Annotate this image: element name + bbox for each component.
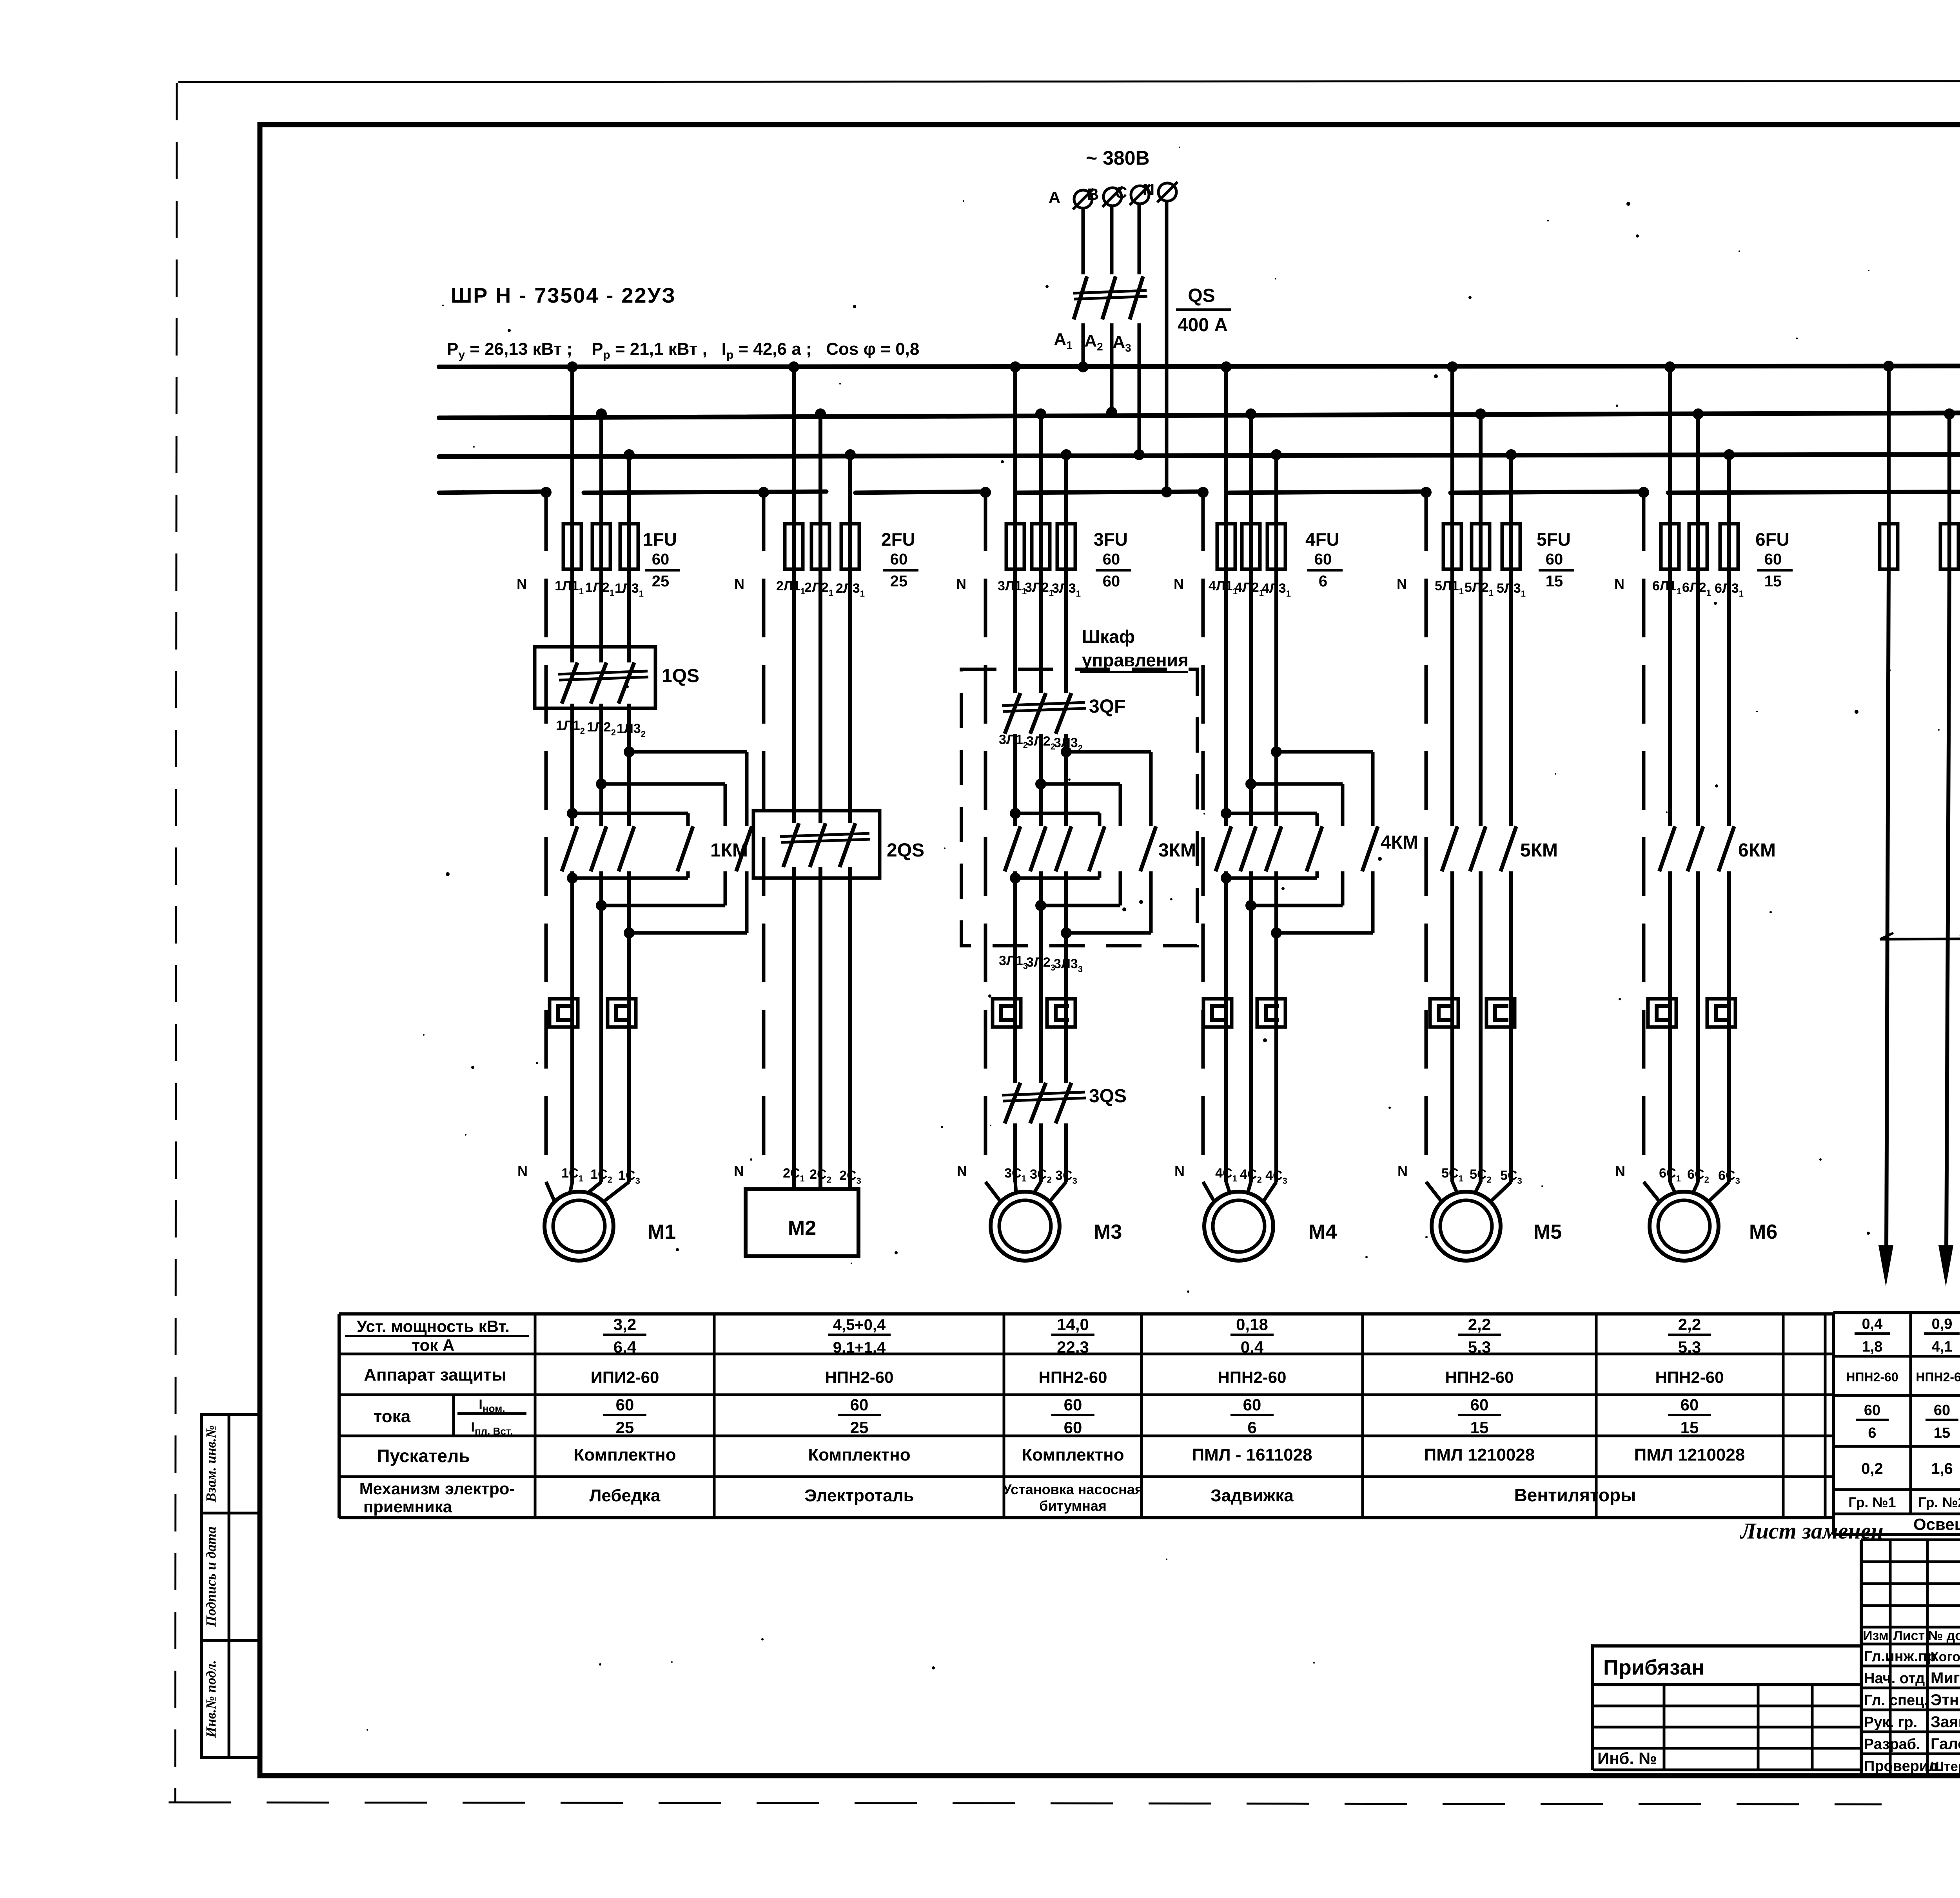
node branch4 phase3 on bus L3 bbox=[1271, 449, 1282, 460]
svg-text:N: N bbox=[1397, 576, 1407, 592]
node branch6 phase3 on bus L3 bbox=[1724, 449, 1735, 460]
fuse 1FU pole2 bbox=[592, 524, 610, 569]
svg-text:N: N bbox=[1174, 1163, 1185, 1179]
node branch3 phase2 on bus L2 bbox=[1035, 408, 1046, 419]
svg-text:2FU: 2FU bbox=[881, 529, 915, 550]
svg-text:5,3: 5,3 bbox=[1678, 1338, 1701, 1356]
svg-text:15: 15 bbox=[1934, 1425, 1950, 1441]
bus line L2 bbox=[439, 412, 1960, 418]
svg-text:60: 60 bbox=[652, 551, 670, 568]
svg-text:25: 25 bbox=[850, 1418, 869, 1437]
svg-text:~ 380В: ~ 380В bbox=[1086, 147, 1150, 169]
wire branch1 phase3 drop bbox=[627, 455, 631, 569]
wire branch3 phases to 3QS bbox=[1013, 871, 1017, 1083]
wire phases into motor M5 bbox=[1452, 1182, 1457, 1193]
wire branch4 phase2 drop bbox=[1249, 414, 1253, 569]
wire branch2 phase1 drop bbox=[792, 367, 796, 569]
switch 3QS contacts bbox=[1005, 1083, 1020, 1123]
switch 1QS box bbox=[535, 647, 655, 708]
svg-text:4,1: 4,1 bbox=[1932, 1339, 1953, 1355]
wire branch6 phases to thermal relays bbox=[1668, 871, 1672, 1182]
wire branch4 phase3 drop bbox=[1274, 455, 1278, 569]
fuse 5FU pole3 bbox=[1502, 524, 1520, 569]
svg-text:Ру = 26,13 кВт ; Рр = 21,1: Ру = 26,13 кВт ; Рр = 21,1 кВт , Iр = 42… bbox=[447, 339, 919, 361]
electric hoist M2 box bbox=[746, 1189, 858, 1256]
fuse 3FU pole3 bbox=[1057, 524, 1075, 569]
node lighting feeder 1 on bus L1 bbox=[1883, 361, 1894, 372]
node branch6 phase2 on bus L2 bbox=[1693, 408, 1704, 419]
svg-text:Комплектно: Комплектно bbox=[573, 1445, 676, 1464]
bus line L1 bbox=[439, 366, 1960, 367]
title block privyazan subtable bbox=[1593, 1684, 1861, 1686]
drawing frame border bbox=[260, 125, 1960, 1776]
node branch1 phase2 on bus L2 bbox=[596, 408, 607, 419]
parameters table grid bbox=[339, 1312, 1833, 1316]
svg-text:Разраб.: Разраб. bbox=[1864, 1736, 1920, 1753]
fuse 6FU pole1 bbox=[1661, 524, 1679, 569]
wire branch5 phases fuse to contactor bbox=[1450, 569, 1454, 826]
wire branch6 neutral dashed bbox=[1642, 492, 1646, 1170]
wire branch1 phase1 drop bbox=[570, 367, 574, 569]
svg-text:N: N bbox=[1397, 1163, 1408, 1179]
svg-text:Комплектно: Комплектно bbox=[808, 1445, 910, 1464]
svg-text:60: 60 bbox=[1103, 573, 1120, 590]
svg-text:3,2: 3,2 bbox=[613, 1315, 636, 1334]
contactor 1КМ contacts bbox=[562, 826, 577, 871]
wire lighting feeder 2 drop bbox=[1947, 414, 1951, 569]
svg-text:Гр. №1: Гр. №1 bbox=[1848, 1494, 1896, 1510]
wire branch4 phases fuse to contactor bbox=[1224, 569, 1228, 826]
svg-text:6,4: 6,4 bbox=[613, 1338, 637, 1356]
svg-text:С: С bbox=[1115, 183, 1127, 201]
node branch1 phase1 on bus L1 bbox=[567, 361, 578, 372]
motor M1 bbox=[544, 1192, 613, 1261]
svg-text:Коголовский: Коголовский bbox=[1931, 1649, 1960, 1664]
fuse 2FU pole3 bbox=[841, 524, 859, 569]
svg-text:Аппарат защиты: Аппарат защиты bbox=[364, 1365, 506, 1384]
node branch4 phase2 on bus L2 bbox=[1245, 408, 1256, 419]
svg-text:60: 60 bbox=[1243, 1395, 1261, 1414]
svg-text:1FU: 1FU bbox=[643, 529, 677, 550]
svg-text:60: 60 bbox=[1864, 1402, 1880, 1419]
node branch5 phase1 on bus L1 bbox=[1447, 361, 1458, 372]
svg-text:0,18: 0,18 bbox=[1236, 1315, 1268, 1334]
node branch1 neutral on bus N bbox=[541, 487, 552, 498]
thermal relay 3KK element at 2707 bbox=[1047, 999, 1075, 1027]
node branch2 phase3 on bus L3 bbox=[845, 449, 856, 460]
svg-text:Лебедка: Лебедка bbox=[590, 1486, 661, 1505]
wire branch6 phase2 drop bbox=[1696, 414, 1700, 569]
svg-text:5,3: 5,3 bbox=[1468, 1338, 1491, 1356]
wire N into motor M3 bbox=[985, 1182, 1001, 1202]
node branch2 neutral on bus N bbox=[758, 487, 769, 498]
wire branch1 phases to thermal relays bbox=[570, 871, 574, 1182]
svg-text:Гр. №2: Гр. №2 bbox=[1918, 1494, 1960, 1510]
svg-text:управления: управления bbox=[1082, 650, 1189, 670]
wire reversing bridge upper 3 bbox=[1221, 808, 1232, 819]
node branch5 phase3 on bus L3 bbox=[1506, 449, 1517, 460]
svg-text:Заяц: Заяц bbox=[1931, 1713, 1960, 1731]
svg-text:ПМЛ 1210028: ПМЛ 1210028 bbox=[1424, 1445, 1535, 1464]
node supply N on bus N bbox=[1161, 486, 1172, 497]
wire reversing bridge upper 2 bbox=[1035, 778, 1046, 789]
svg-text:ПМЛ 1210028: ПМЛ 1210028 bbox=[1634, 1445, 1745, 1464]
svg-text:4FU: 4FU bbox=[1305, 529, 1339, 550]
fuse 1FU pole1 bbox=[563, 524, 581, 569]
svg-text:ИПИ2-60: ИПИ2-60 bbox=[591, 1368, 659, 1386]
svg-text:Взам. инв.№: Взам. инв.№ bbox=[203, 1425, 219, 1503]
svg-text:25: 25 bbox=[652, 573, 670, 590]
svg-text:1QS: 1QS bbox=[662, 666, 699, 686]
wire N into motor M1 bbox=[546, 1182, 555, 1202]
title block privyazan box bbox=[1593, 1646, 1861, 1685]
svg-text:60: 60 bbox=[850, 1395, 869, 1414]
wire phase B to bus bbox=[1110, 323, 1114, 412]
svg-text:Инб. №: Инб. № bbox=[1597, 1749, 1657, 1767]
svg-text:60: 60 bbox=[1064, 1418, 1082, 1437]
switch 2QS box bbox=[753, 811, 880, 878]
svg-text:тока: тока bbox=[374, 1407, 411, 1426]
wire branch4 neutral dashed bbox=[1201, 492, 1205, 1170]
table header row3 label bbox=[452, 1395, 455, 1436]
svg-text:9,1+1,4: 9,1+1,4 bbox=[833, 1339, 886, 1356]
wire lighting feeder 1 drop bbox=[1887, 367, 1891, 569]
node branch4 neutral on bus N bbox=[1198, 487, 1209, 498]
svg-text:6КМ: 6КМ bbox=[1738, 840, 1776, 861]
svg-text:Уст. мощность кВт.: Уст. мощность кВт. bbox=[357, 1317, 510, 1335]
svg-text:N: N bbox=[1143, 180, 1154, 199]
node supply B on bus L2 bbox=[1106, 407, 1117, 418]
fuse 2FU pole2 bbox=[811, 524, 829, 569]
thermal relay 3KK element at 2568 bbox=[993, 999, 1021, 1027]
svg-text:Механизм электро-: Механизм электро- bbox=[359, 1479, 515, 1498]
svg-text:4,5+0,4: 4,5+0,4 bbox=[833, 1316, 886, 1334]
node lighting feeder 2 on bus L2 bbox=[1944, 408, 1955, 419]
wire branch5 phase3 drop bbox=[1509, 455, 1513, 569]
svg-text:N: N bbox=[1614, 576, 1624, 592]
svg-text:Изм: Изм bbox=[1863, 1628, 1889, 1643]
svg-text:22,3: 22,3 bbox=[1057, 1338, 1089, 1356]
svg-text:6FU: 6FU bbox=[1755, 529, 1789, 550]
svg-text:25: 25 bbox=[616, 1418, 634, 1437]
wire phases into motor M3 bbox=[1015, 1182, 1016, 1193]
svg-text:Штеренлихт: Штеренлихт bbox=[1931, 1759, 1960, 1774]
wire reversing bridge lower 3 bbox=[1061, 927, 1072, 938]
wire reversing bridge lower 1 bbox=[1221, 873, 1232, 884]
svg-text:М1: М1 bbox=[648, 1221, 676, 1243]
svg-text:А: А bbox=[1049, 188, 1060, 207]
fuse lighting feeder 2 bbox=[1940, 524, 1958, 569]
svg-text:1,6: 1,6 bbox=[1931, 1460, 1953, 1477]
wire branch2 phases to M2 bbox=[792, 867, 796, 1189]
svg-text:Рук. гр.: Рук. гр. bbox=[1864, 1714, 1917, 1731]
title block header row izm list bbox=[1861, 1626, 1960, 1629]
svg-text:6: 6 bbox=[1868, 1425, 1876, 1441]
svg-text:Подпись и дата: Подпись и дата bbox=[203, 1526, 219, 1627]
wire N into motor M5 bbox=[1426, 1182, 1442, 1202]
fuse 4FU pole1 bbox=[1217, 524, 1235, 569]
switch 2QS contacts bbox=[783, 823, 799, 867]
wire reversing bridge lower 2 bbox=[596, 900, 607, 911]
svg-text:НПН2-60: НПН2-60 bbox=[1916, 1370, 1960, 1384]
svg-text:0,9: 0,9 bbox=[1932, 1316, 1953, 1332]
svg-text:М6: М6 bbox=[1749, 1221, 1777, 1243]
svg-text:Задвижка: Задвижка bbox=[1210, 1486, 1294, 1505]
wire reversing bridge lower 3 bbox=[624, 927, 635, 938]
wire reversing bridge upper 2 bbox=[1245, 778, 1256, 789]
wire branch2 phases fuse to 2QS bbox=[792, 569, 796, 823]
wire branch5 neutral dashed bbox=[1425, 492, 1428, 1170]
wire branch3 phase2 drop bbox=[1039, 414, 1043, 569]
wire reversing bridge upper 3 bbox=[567, 808, 578, 819]
svg-text:60: 60 bbox=[1064, 1395, 1082, 1414]
svg-text:ШР Н - 73504 - 22УЗ: ШР Н - 73504 - 22УЗ bbox=[451, 284, 676, 307]
svg-text:N: N bbox=[517, 1163, 528, 1179]
fuse 1FU pole3 bbox=[620, 524, 638, 569]
thermal relay 6KK element at 4391 bbox=[1707, 999, 1735, 1027]
wire branch2 phase3 drop bbox=[848, 455, 852, 569]
svg-text:60: 60 bbox=[890, 551, 908, 568]
fuse 6FU pole3 bbox=[1720, 524, 1738, 569]
svg-text:3QF: 3QF bbox=[1089, 696, 1125, 717]
svg-text:60: 60 bbox=[1681, 1395, 1699, 1414]
svg-text:Электроталь: Электроталь bbox=[804, 1486, 914, 1505]
svg-text:1,8: 1,8 bbox=[1862, 1339, 1883, 1355]
svg-text:В: В bbox=[1087, 185, 1099, 203]
wire branch1 neutral dashed bbox=[544, 492, 548, 1172]
svg-text:0,4: 0,4 bbox=[1241, 1338, 1264, 1356]
node branch3 phase3 on bus L3 bbox=[1061, 449, 1072, 460]
svg-text:4КМ: 4КМ bbox=[1381, 832, 1418, 853]
svg-text:ток А: ток А bbox=[412, 1336, 455, 1354]
wire branch6 phase3 drop bbox=[1727, 455, 1731, 569]
wire branch5 phase1 drop bbox=[1450, 367, 1454, 569]
wire branch5 phases to thermal relays bbox=[1450, 871, 1454, 1182]
svg-text:приемника: приемника bbox=[363, 1497, 452, 1516]
title block revision grid bbox=[1861, 1539, 1960, 1541]
svg-text:Освещение: Освещение bbox=[1913, 1515, 1960, 1533]
node branch3 neutral on bus N bbox=[980, 487, 991, 498]
wire branch4 phase1 drop bbox=[1224, 367, 1228, 569]
svg-text:Шкаф: Шкаф bbox=[1082, 626, 1135, 647]
switch 1QS contacts bbox=[562, 662, 577, 704]
wire lighting group 2 feeder bbox=[1946, 569, 1949, 1254]
svg-text:НПН2-60: НПН2-60 bbox=[825, 1368, 894, 1386]
svg-text:N: N bbox=[1174, 576, 1184, 592]
svg-text:2,2: 2,2 bbox=[1678, 1315, 1701, 1334]
svg-text:М3: М3 bbox=[1094, 1221, 1122, 1243]
svg-text:М4: М4 bbox=[1308, 1221, 1337, 1243]
wire branch4 phases to thermal relays bbox=[1224, 871, 1228, 1182]
wire reversing bridge lower 1 bbox=[567, 873, 578, 884]
wire branch3 phase1 drop bbox=[1013, 367, 1017, 569]
wire phases into motor M4 bbox=[1226, 1182, 1230, 1193]
svg-text:15: 15 bbox=[1764, 573, 1782, 590]
disconnector QS main bbox=[1074, 276, 1087, 319]
fuse 2FU pole1 bbox=[785, 524, 803, 569]
wire reversing bridge lower 2 bbox=[1035, 900, 1046, 911]
svg-text:1КМ: 1КМ bbox=[710, 840, 748, 861]
svg-text:Вентиляторы: Вентиляторы bbox=[1514, 1485, 1636, 1505]
page edge left broken line bbox=[175, 83, 177, 1803]
svg-text:N: N bbox=[734, 1163, 744, 1179]
contactor 6КМ contacts bbox=[1659, 826, 1675, 871]
svg-text:НПН2-60: НПН2-60 bbox=[1445, 1368, 1514, 1386]
svg-text:2,2: 2,2 bbox=[1468, 1315, 1491, 1334]
svg-text:5FU: 5FU bbox=[1537, 529, 1571, 550]
wire branch2 phase2 drop bbox=[818, 414, 822, 569]
breaker 3QF contacts bbox=[1005, 693, 1020, 734]
svg-text:НПН2-60: НПН2-60 bbox=[1846, 1370, 1898, 1384]
wire branch6 phase1 drop bbox=[1668, 367, 1672, 569]
wire branch1 phases 1QS to contactor bbox=[570, 704, 574, 826]
control cabinet dashed box bbox=[961, 669, 1197, 946]
svg-text:Пускатель: Пускатель bbox=[377, 1446, 470, 1466]
svg-text:60: 60 bbox=[1314, 551, 1332, 568]
thermal relay 1KK element at 1586 bbox=[608, 999, 636, 1027]
node branch6 phase1 on bus L1 bbox=[1664, 361, 1675, 372]
svg-text:N: N bbox=[956, 576, 966, 592]
svg-text:3FU: 3FU bbox=[1094, 529, 1128, 550]
thermal relay 5KK element at 3828 bbox=[1486, 999, 1515, 1027]
fuse 4FU pole2 bbox=[1242, 524, 1260, 569]
contactor 4КМ contacts bbox=[1216, 826, 1231, 871]
wire branch1 phase2 drop bbox=[599, 414, 603, 569]
wire phases into motor M1 bbox=[570, 1182, 572, 1193]
bus line L3 bbox=[439, 454, 1960, 457]
wire N into motor M4 bbox=[1203, 1182, 1214, 1202]
svg-text:N: N bbox=[957, 1163, 967, 1179]
fuse 4FU pole3 bbox=[1267, 524, 1285, 569]
node branch2 phase2 on bus L2 bbox=[815, 408, 826, 419]
fuse 5FU pole2 bbox=[1472, 524, 1490, 569]
wire branch2 neutral dashed bbox=[762, 492, 766, 1172]
thermal relay 4KK element at 3106 bbox=[1203, 999, 1232, 1027]
svg-text:N: N bbox=[734, 576, 744, 592]
svg-text:ПМЛ - 1611028: ПМЛ - 1611028 bbox=[1192, 1445, 1312, 1464]
arrow lighting group 1 bbox=[1878, 1245, 1893, 1287]
svg-text:N: N bbox=[517, 576, 527, 592]
lighting table grid bbox=[1833, 1311, 1960, 1314]
fuse 6FU pole2 bbox=[1689, 524, 1707, 569]
svg-text:Мигаль: Мигаль bbox=[1931, 1669, 1960, 1687]
page edge bottom broken line bbox=[169, 1802, 1882, 1804]
svg-text:60: 60 bbox=[1546, 551, 1563, 568]
svg-text:2QS: 2QS bbox=[887, 840, 924, 861]
page edge top line bbox=[178, 81, 1960, 82]
svg-text:Установка насосная: Установка насосная bbox=[1003, 1481, 1143, 1497]
node branch5 neutral on bus N bbox=[1421, 487, 1432, 498]
wire phase B drop bbox=[1110, 206, 1114, 274]
wire phases into motor M6 bbox=[1670, 1182, 1675, 1193]
svg-text:Этнис: Этнис bbox=[1931, 1691, 1960, 1709]
wire lighting group 1 feeder bbox=[1886, 569, 1889, 1254]
wire phase C drop bbox=[1138, 204, 1141, 274]
thermal relay 5KK element at 3684 bbox=[1430, 999, 1458, 1027]
svg-text:№ документа: № документа bbox=[1928, 1628, 1960, 1643]
wire reversing bridge upper 2 bbox=[596, 778, 607, 789]
wire branch3 phases to motor bbox=[1013, 1123, 1017, 1182]
wire reversing bridge lower 3 bbox=[1271, 927, 1282, 938]
wire branch1 phases fuse to 1QS bbox=[570, 569, 574, 662]
bus line N segmented bbox=[439, 492, 546, 493]
svg-text:15: 15 bbox=[1681, 1418, 1699, 1437]
svg-text:QS: QS bbox=[1188, 285, 1215, 306]
motor M6 bbox=[1650, 1192, 1719, 1261]
motor M4 bbox=[1204, 1192, 1273, 1261]
svg-text:0,2: 0,2 bbox=[1861, 1460, 1883, 1477]
svg-text:0,4: 0,4 bbox=[1862, 1316, 1883, 1332]
svg-text:Лист: Лист bbox=[1893, 1628, 1925, 1643]
svg-text:6: 6 bbox=[1319, 573, 1327, 590]
svg-text:15: 15 bbox=[1470, 1418, 1489, 1437]
svg-text:НПН2-60: НПН2-60 bbox=[1039, 1368, 1107, 1386]
svg-text:Нач. отд.: Нач. отд. bbox=[1864, 1670, 1929, 1687]
fuse lighting feeder 1 bbox=[1880, 524, 1898, 569]
node supply C on bus L3 bbox=[1134, 449, 1145, 460]
svg-text:14,0: 14,0 bbox=[1057, 1315, 1089, 1334]
wire phase A drop bbox=[1082, 208, 1085, 274]
svg-text:60: 60 bbox=[1103, 551, 1120, 568]
node supply A on bus L1 bbox=[1078, 361, 1089, 372]
wire branch5 phase2 drop bbox=[1479, 414, 1483, 569]
svg-text:25: 25 bbox=[890, 573, 908, 590]
svg-text:60: 60 bbox=[616, 1395, 634, 1414]
svg-text:Инв.№ подл.: Инв.№ подл. bbox=[203, 1660, 219, 1738]
wire phase C to bus bbox=[1138, 323, 1141, 455]
fuse 5FU pole1 bbox=[1443, 524, 1461, 569]
wire reversing bridge upper 3 bbox=[1010, 808, 1021, 819]
thermal relay 1KK element at 1438 bbox=[550, 999, 578, 1027]
motor M3 bbox=[991, 1192, 1060, 1261]
node branch2 phase1 on bus L1 bbox=[788, 361, 799, 372]
arrow lighting group 2 bbox=[1938, 1245, 1953, 1287]
wire reversing bridge upper 1 bbox=[1061, 746, 1072, 757]
motor M5 bbox=[1432, 1192, 1501, 1261]
wire branch6 phases fuse to contactor bbox=[1668, 569, 1672, 826]
svg-text:М5: М5 bbox=[1534, 1221, 1562, 1243]
svg-text:60: 60 bbox=[1470, 1395, 1489, 1414]
wire neutral drop bbox=[1165, 201, 1169, 492]
wire branch3 phase3 drop bbox=[1064, 455, 1068, 569]
svg-text:15: 15 bbox=[1546, 573, 1563, 590]
wire reversing bridge lower 2 bbox=[1245, 900, 1256, 911]
wire reversing bridge upper 1 bbox=[1271, 746, 1282, 757]
node branch1 phase3 on bus L3 bbox=[624, 449, 635, 460]
wire branch3 neutral dashed bbox=[984, 492, 987, 1170]
svg-text:М2: М2 bbox=[788, 1217, 816, 1239]
wire branch3 phases 3QF to contactor bbox=[1013, 734, 1017, 826]
svg-text:3КМ: 3КМ bbox=[1158, 840, 1196, 861]
node branch6 neutral on bus N bbox=[1638, 487, 1649, 498]
title block staff rows bbox=[1861, 1665, 1960, 1668]
svg-text:Проверил: Проверил bbox=[1864, 1758, 1938, 1775]
thermal relay 4KK element at 3243 bbox=[1257, 999, 1285, 1027]
wire reversing bridge upper 1 bbox=[624, 746, 635, 757]
svg-text:Галетко: Галетко bbox=[1931, 1735, 1960, 1753]
thermal relay 6KK element at 4240 bbox=[1648, 999, 1676, 1027]
fuse 3FU pole1 bbox=[1006, 524, 1024, 569]
cable note APRTO-500 leader line bbox=[1880, 938, 1960, 939]
left margin label box bbox=[201, 1414, 260, 1758]
svg-text:Гл. спец.: Гл. спец. bbox=[1864, 1692, 1928, 1709]
node branch4 phase1 on bus L1 bbox=[1221, 361, 1232, 372]
svg-text:3QS: 3QS bbox=[1089, 1086, 1127, 1107]
node branch5 phase2 on bus L2 bbox=[1475, 408, 1486, 419]
scan speckles bbox=[367, 147, 1960, 1731]
svg-text:Гл.инж.пр: Гл.инж.пр bbox=[1864, 1648, 1936, 1665]
svg-text:6: 6 bbox=[1247, 1418, 1256, 1437]
